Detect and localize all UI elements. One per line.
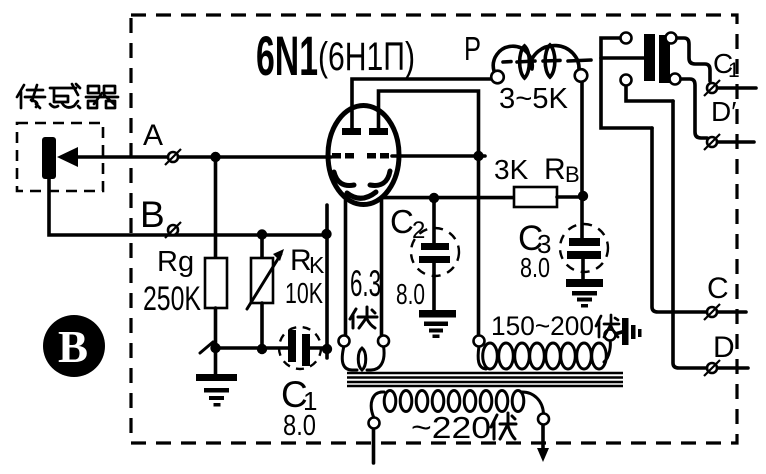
- svg-text:K: K: [309, 252, 325, 278]
- svg-text:8.0: 8.0: [520, 252, 550, 283]
- svg-text:1: 1: [728, 59, 740, 82]
- svg-text:6.3: 6.3: [350, 263, 381, 304]
- svg-text:P: P: [464, 30, 481, 67]
- svg-text:3~5K: 3~5K: [499, 83, 569, 115]
- svg-text:(6Н1П): (6Н1П): [318, 35, 415, 79]
- svg-text:~220: ~220: [411, 410, 491, 445]
- svg-text:C: C: [390, 203, 414, 240]
- svg-text:R: R: [544, 153, 566, 186]
- svg-text:3K: 3K: [494, 154, 529, 185]
- svg-text:150~200: 150~200: [491, 311, 594, 341]
- svg-text:Rg: Rg: [157, 246, 194, 278]
- svg-text:D: D: [713, 331, 735, 364]
- svg-text:2: 2: [412, 217, 425, 244]
- svg-text:B: B: [58, 322, 88, 372]
- svg-text:A: A: [143, 119, 163, 152]
- svg-text:250K: 250K: [143, 280, 201, 318]
- svg-text:D′: D′: [711, 96, 736, 127]
- svg-text:8.0: 8.0: [396, 279, 425, 311]
- svg-text:B: B: [140, 194, 165, 235]
- svg-text:10K: 10K: [285, 278, 323, 310]
- svg-text:C: C: [707, 272, 729, 305]
- svg-text:8.0: 8.0: [283, 410, 316, 442]
- svg-text:B: B: [565, 162, 580, 187]
- svg-text:6N1: 6N1: [256, 24, 318, 87]
